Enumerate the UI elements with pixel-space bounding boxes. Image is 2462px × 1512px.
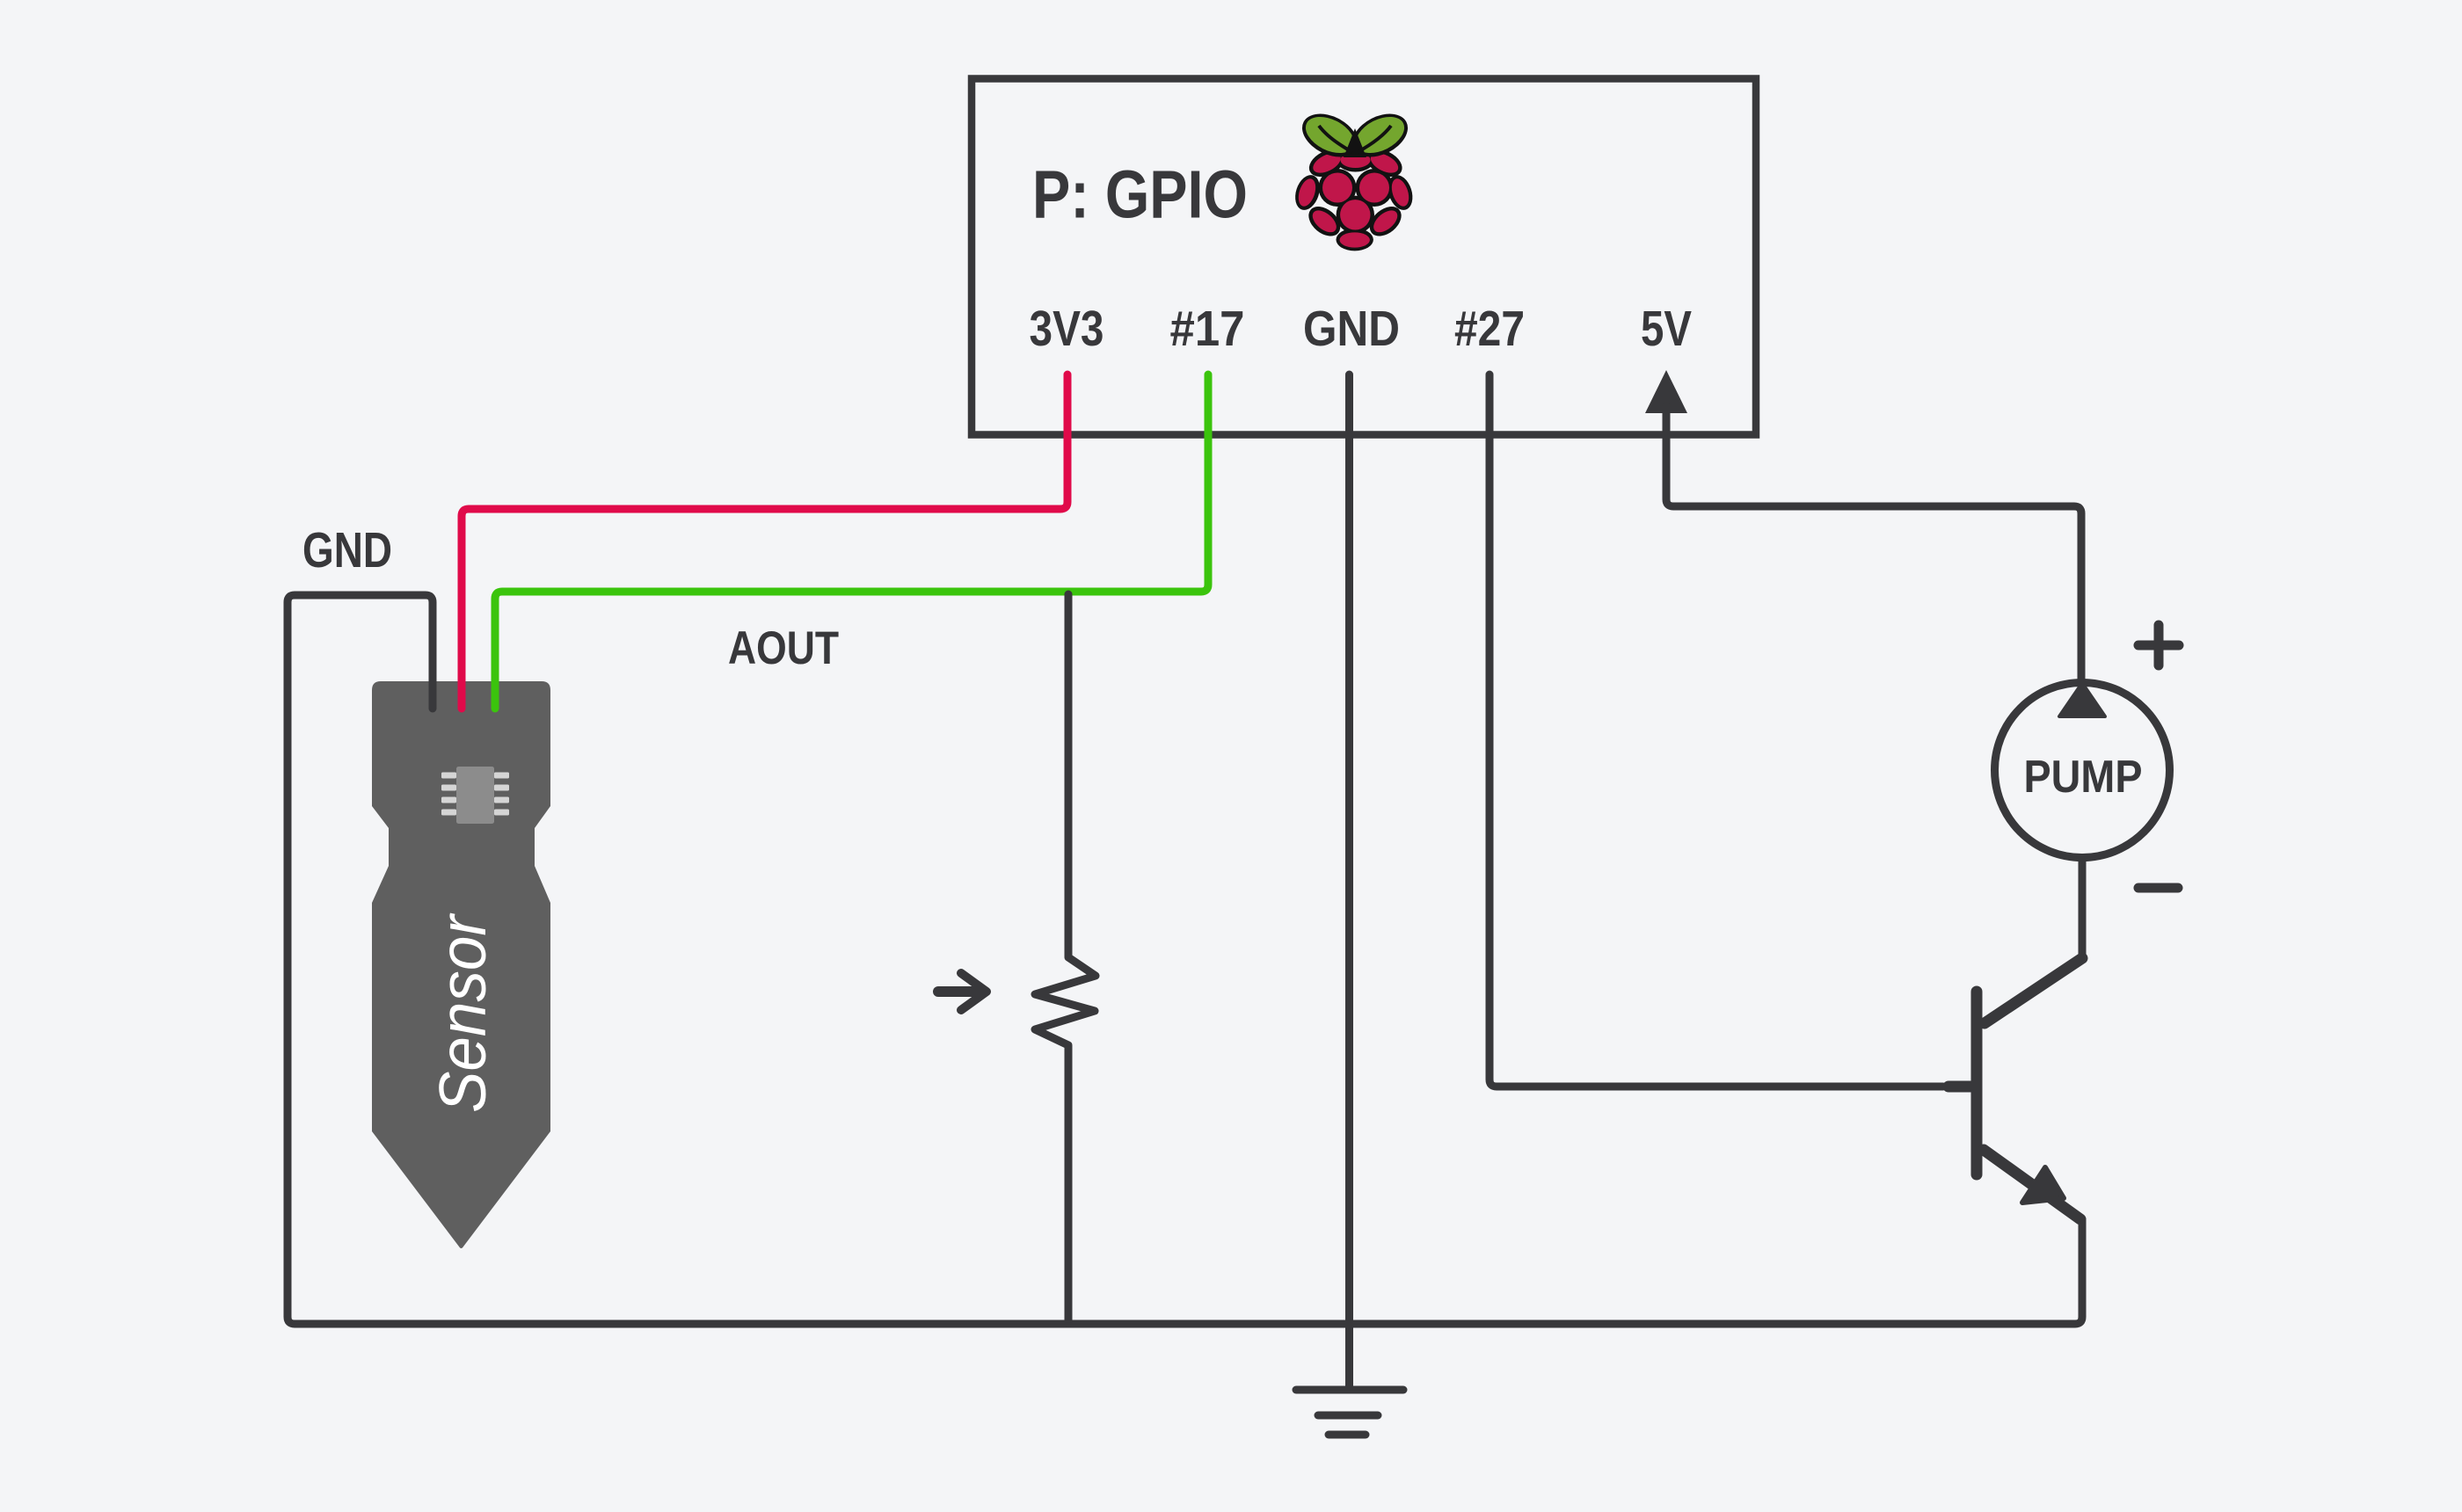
svg-text:3V3: 3V3 (1030, 301, 1104, 357)
svg-text:AOUT: AOUT (728, 622, 839, 674)
svg-text:GND: GND (1303, 301, 1400, 357)
svg-text:PUMP: PUMP (2024, 752, 2143, 803)
svg-text:GND: GND (302, 522, 392, 578)
svg-text:P: GPIO: P: GPIO (1032, 157, 1248, 233)
svg-text:#17: #17 (1170, 301, 1245, 357)
svg-text:5V: 5V (1641, 301, 1692, 357)
svg-text:Sensor: Sensor (426, 912, 499, 1113)
svg-text:#27: #27 (1454, 301, 1525, 357)
